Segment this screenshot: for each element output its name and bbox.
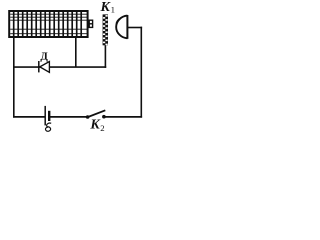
switch K2 lever [87, 110, 105, 117]
switch K2 contact dot left [86, 115, 90, 119]
svg-text:1: 1 [111, 5, 115, 15]
diode D cathode bar [38, 61, 40, 72]
label EMF script E [45, 123, 51, 131]
telephone earpiece (half-disc) [116, 15, 127, 39]
wire: bottom rail right segment (switch to right rail) [104, 116, 142, 118]
wire: bottom rail middle segment (battery to switch) [50, 116, 88, 118]
membrane contact K1 (checkered bar) [103, 14, 108, 45]
wire: junction row with diode (left rail to membrane lead) [14, 66, 106, 68]
battery EMF long plate [44, 106, 46, 126]
coil core pole stub [89, 20, 93, 27]
wire: bottom rail left segment (to battery) [13, 116, 45, 118]
switch K2 contact dot right [102, 115, 106, 119]
wire: right rail [140, 27, 142, 118]
diode D triangle [40, 62, 50, 73]
coil L electromagnet winding body [9, 11, 87, 37]
battery EMF short thick plate [48, 111, 50, 121]
svg-text:Д: Д [40, 50, 48, 62]
wire: membrane K1 lead down to junction row [104, 45, 106, 68]
wire: coil right lead down to junction row [75, 37, 77, 67]
wire: telephone to right rail [128, 27, 142, 29]
wire: left rail from coil left lead down to bottom rail [13, 37, 15, 118]
svg-text:2: 2 [100, 123, 104, 133]
